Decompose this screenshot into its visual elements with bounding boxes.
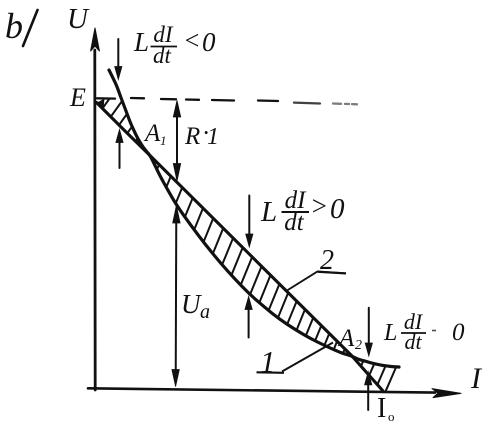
svg-text:0: 0 xyxy=(202,27,216,57)
pointer line for label 1 xyxy=(282,343,333,372)
svg-text:I: I xyxy=(377,393,386,424)
svg-text:o: o xyxy=(388,409,395,424)
svg-text:L: L xyxy=(260,196,277,228)
hatching: region between curves before A1 xyxy=(103,99,110,108)
pointer line for label 2 xyxy=(287,272,346,291)
hatching: lens region between A1 and A2 xyxy=(157,165,159,170)
svg-text:dt: dt xyxy=(404,329,422,354)
up arrow pointing at line 2 from below (left pair) xyxy=(119,137,121,168)
svg-text:b: b xyxy=(5,6,23,46)
svg-text:A: A xyxy=(143,120,161,147)
svg-text:0: 0 xyxy=(330,193,345,225)
svg-text:0: 0 xyxy=(452,319,465,346)
Ua dimension double arrow xyxy=(175,212,178,380)
svg-text:>: > xyxy=(310,191,328,221)
U axis (vertical) xyxy=(93,50,96,390)
down arrow pointing at curve 1 near A2 (right label) xyxy=(368,308,370,349)
svg-text:2: 2 xyxy=(320,245,334,276)
up arrow pointing at curve 1 from below (middle pair) xyxy=(248,304,250,338)
svg-text:L: L xyxy=(383,320,397,346)
curve 1 (arc characteristic) xyxy=(109,70,399,367)
I axis (horizontal) xyxy=(88,388,435,392)
svg-text:A: A xyxy=(337,325,355,352)
down arrow pointing at top of curve 1 (for L dI/dt < 0 label) xyxy=(117,39,119,72)
hatching: region after A2 xyxy=(361,361,363,367)
svg-text:<: < xyxy=(183,26,201,55)
line 2 (straight line from E) xyxy=(97,103,384,392)
svg-text:1: 1 xyxy=(260,344,276,379)
svg-text:E: E xyxy=(69,83,86,112)
down arrow pointing at line 2 (for L dI/dt > 0 label) xyxy=(248,196,250,240)
svg-text:dt: dt xyxy=(284,209,305,236)
dashed line at E level xyxy=(97,97,115,100)
svg-text:a: a xyxy=(200,301,210,323)
R*I dimension double arrow xyxy=(176,106,178,175)
svg-text:1: 1 xyxy=(207,124,219,150)
svg-text:1: 1 xyxy=(160,133,167,148)
svg-text:L: L xyxy=(133,27,149,57)
svg-text:2: 2 xyxy=(355,338,362,353)
svg-text:dt: dt xyxy=(153,43,172,68)
svg-text:U: U xyxy=(67,3,90,35)
up arrow pointing at line 2 end from below axis xyxy=(367,379,369,410)
svg-text:U: U xyxy=(181,289,202,319)
small arrowhead at E on axis xyxy=(96,99,104,107)
svg-text:R: R xyxy=(184,123,200,150)
